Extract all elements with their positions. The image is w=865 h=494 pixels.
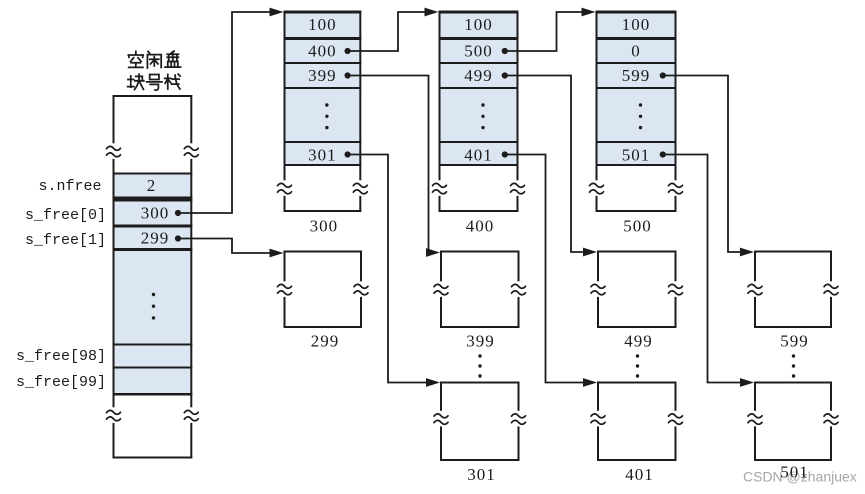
label 500 under block xyxy=(623,217,652,236)
label 499 under box xyxy=(624,332,653,351)
svg-text:501: 501 xyxy=(780,463,809,482)
label 599 under box xyxy=(780,332,809,351)
svg-text:299: 299 xyxy=(311,332,340,351)
svg-text:401: 401 xyxy=(464,145,493,164)
stack ellipsis xyxy=(152,293,155,320)
stack value dots xyxy=(175,210,181,242)
free block 299 box xyxy=(278,251,369,329)
svg-text:301: 301 xyxy=(308,145,337,164)
svg-text:s_free[1]: s_free[1] xyxy=(25,232,106,249)
svg-text:300: 300 xyxy=(141,204,170,223)
title 空闲盘块号栈 (free disk block number stack) xyxy=(128,51,181,90)
wire 399 entry (block300 row3 to box 399) xyxy=(348,76,441,257)
wire 599 entry (block500 row3 to box 599) xyxy=(662,76,754,257)
label 501 under box xyxy=(780,463,809,482)
svg-text:300: 300 xyxy=(310,217,339,236)
svg-text:s_free[0]: s_free[0] xyxy=(25,207,106,224)
stack cell fills xyxy=(115,175,191,394)
svg-text:499: 499 xyxy=(464,66,493,85)
label 399 under box xyxy=(466,332,495,351)
svg-text:599: 599 xyxy=(780,332,809,351)
free block 501 box xyxy=(748,382,838,462)
label 300 under block xyxy=(310,217,339,236)
wire 400 entry (block300 row2 to block 400) xyxy=(348,8,439,51)
free block 499 box xyxy=(591,251,683,329)
wire 401 entry (block400 row4 to box 401) xyxy=(505,155,597,387)
svg-text:400: 400 xyxy=(466,217,495,236)
disk block group 500 xyxy=(590,11,683,213)
stack cell values xyxy=(141,176,170,248)
svg-text:500: 500 xyxy=(464,42,493,61)
wire 499 entry (block400 row3 to box 499) xyxy=(505,76,597,257)
svg-text:500: 500 xyxy=(623,217,652,236)
svg-text:2: 2 xyxy=(147,176,157,195)
svg-text:399: 399 xyxy=(308,66,337,85)
svg-text:s.nfree: s.nfree xyxy=(38,178,101,195)
wire s_free[1]=299 to box 299 xyxy=(178,239,284,258)
label 400 under block xyxy=(466,217,495,236)
watermark CSDN @zhanjuex xyxy=(743,469,857,485)
svg-text:499: 499 xyxy=(624,332,653,351)
label 301 under box xyxy=(467,465,496,484)
svg-text:400: 400 xyxy=(308,42,337,61)
free block 401 box xyxy=(591,382,683,462)
svg-text:100: 100 xyxy=(308,15,337,34)
stack break marks xyxy=(107,143,121,159)
column ellipsis under 499 xyxy=(636,354,639,377)
svg-text:s_free[99]: s_free[99] xyxy=(16,374,106,391)
wire 501 entry (block500 row4 to box 501) xyxy=(662,155,754,387)
column ellipsis under 399 xyxy=(478,354,481,377)
svg-text:s_free[98]: s_free[98] xyxy=(16,348,106,365)
label 299 under box xyxy=(311,332,340,351)
wire s_free[0]=300 to block 300 xyxy=(178,8,284,213)
svg-text:501: 501 xyxy=(622,145,651,164)
stack left labels xyxy=(16,178,106,391)
svg-text:301: 301 xyxy=(467,465,496,484)
stack internal lines xyxy=(113,173,193,396)
svg-text:399: 399 xyxy=(466,332,495,351)
svg-text:100: 100 xyxy=(464,15,493,34)
svg-text:401: 401 xyxy=(625,465,654,484)
wire 500 entry (block400 row2 to block 500) xyxy=(505,8,596,51)
svg-text:0: 0 xyxy=(631,42,641,61)
free block 399 box xyxy=(434,251,526,329)
svg-text:100: 100 xyxy=(622,15,651,34)
disk block group 400 xyxy=(433,11,525,213)
column ellipsis under 599 xyxy=(792,354,795,377)
disk block group 300 (top block, stack of 100..301) xyxy=(278,11,368,213)
free block 599 box xyxy=(748,251,838,329)
svg-text:299: 299 xyxy=(141,229,170,248)
stack outer border xyxy=(113,95,193,459)
svg-text:599: 599 xyxy=(622,66,651,85)
label 401 under box xyxy=(625,465,654,484)
wire 301 entry (block300 row4 to box 301) xyxy=(348,155,441,387)
free block 301 box xyxy=(434,382,526,462)
